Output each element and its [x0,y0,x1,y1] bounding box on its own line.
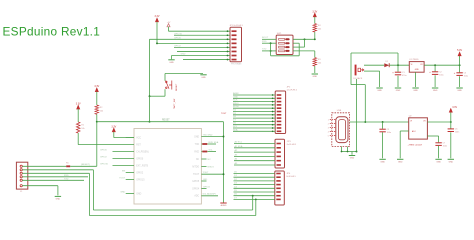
svg-text:ESPduino Rev1.1: ESPduino Rev1.1 [3,25,101,39]
svg-text:GND: GND [396,90,401,92]
svg-text:J1: J1 [20,191,23,193]
svg-text:RXD SDA: RXD SDA [209,141,219,144]
svg-text:GPIO15: GPIO15 [100,164,109,166]
svg-text:DC-JACK: DC-JACK [354,77,363,80]
svg-text:GND: GND [436,161,441,163]
svg-text:AREF: AREF [233,92,239,95]
svg-text:3.3V: 3.3V [155,15,160,18]
svg-text:MTDO: MTDO [192,166,199,168]
svg-text:GND: GND [56,198,61,200]
svg-text:C6: C6 [455,129,458,131]
svg-text:TOUT: TOUT [193,174,200,176]
svg-text:VO: VO [420,64,423,66]
svg-text:MISO: MISO [233,103,239,105]
svg-text:ADC: ADC [194,195,199,198]
svg-text:C1: C1 [402,72,405,74]
svg-text:GPIO2: GPIO2 [174,46,181,48]
svg-text:GPIO2: GPIO2 [100,157,107,159]
svg-text:10k: 10k [81,128,84,130]
svg-text:A3: A3 [235,153,238,156]
svg-text:A4: A4 [235,158,238,161]
svg-text:SCL ADA SPI: SCL ADA SPI [203,193,217,196]
svg-text:6x1F-H8.5: 6x1F-H8.5 [287,144,297,146]
svg-text:AGND: AGND [221,204,227,207]
svg-text:GND: GND [413,90,418,92]
svg-text:3.3V: 3.3V [76,102,81,105]
svg-text:(RESET): (RESET) [81,164,90,166]
svg-text:GND: GND [136,193,141,195]
svg-text:RST: RST [136,144,141,146]
svg-text:GND: GND [457,90,462,92]
svg-text:NC: NC [208,159,212,161]
svg-text:JP4: JP4 [286,173,291,175]
svg-text:GND: GND [377,90,382,92]
svg-text:RESET: RESET [162,120,170,122]
svg-text:RESET: RESET [176,83,178,91]
svg-text:TOUT: TOUT [119,178,126,180]
svg-text:GND: GND [194,136,199,138]
svg-text:CH_PD(EN): CH_PD(EN) [136,151,149,153]
svg-text:A1 SDA: A1 SDA [235,145,243,148]
svg-text:R2: R2 [100,107,103,109]
svg-text:R4: R4 [318,25,321,27]
svg-text:VI: VI [411,64,413,66]
svg-text:EXT_RSTB: EXT_RSTB [136,165,148,167]
svg-text:GND: GND [380,161,385,163]
svg-text:GPIO0: GPIO0 [136,158,144,160]
svg-text:C2: C2 [439,72,442,74]
svg-text:R1: R1 [81,125,84,127]
svg-text:8x1F-H8.5: 8x1F-H8.5 [286,176,296,178]
svg-text:GPIO15: GPIO15 [136,179,145,181]
svg-text:100u: 100u [464,75,468,77]
svg-text:1: 1 [328,119,329,121]
svg-text:GND: GND [201,77,206,79]
svg-text:GND: GND [169,62,174,64]
svg-text:U2: U2 [409,115,413,117]
svg-text:+ REG LD1117: + REG LD1117 [408,145,423,147]
svg-text:VI: VI [410,121,412,123]
svg-text:5: 5 [328,135,329,137]
svg-text:GPIO0: GPIO0 [174,38,181,40]
svg-text:GPIO4: GPIO4 [203,186,210,188]
svg-text:SW1: SW1 [277,33,283,35]
svg-text:D1: D1 [386,61,389,63]
svg-text:GPIO0: GPIO0 [100,150,107,152]
svg-text:GND: GND [233,96,238,98]
svg-text:GND: GND [398,161,403,163]
svg-text:GND: GND [120,192,125,194]
svg-text:NC: NC [196,159,200,161]
svg-text:TOUT: TOUT [221,113,227,115]
svg-text:C5: C5 [387,129,390,131]
svg-text:SCL: SCL [209,149,214,151]
svg-text:R5: R5 [66,163,69,165]
svg-text:GPIO2: GPIO2 [136,172,144,174]
svg-text:GND: GND [449,161,454,163]
svg-text:A2: A2 [235,149,238,152]
svg-text:R3: R3 [318,59,321,61]
svg-text:A0 SCL: A0 SCL [235,141,243,144]
svg-text:100u: 100u [439,74,443,76]
svg-text:RXD: RXD [64,175,69,177]
svg-text:LED: LED [203,179,208,181]
svg-text:GPIO5: GPIO5 [192,181,200,183]
svg-text:5.0V: 5.0V [457,49,462,52]
svg-text:TXD: TXD [195,144,200,146]
svg-text:10k: 10k [100,111,103,113]
svg-text:3.3V: 3.3V [452,106,457,109]
svg-text:MTDO: MTDO [208,166,215,168]
svg-text:TXD: TXD [262,49,267,51]
svg-text:C7: C7 [443,143,446,145]
svg-text:JP2: JP2 [287,87,292,89]
svg-text:JP1 8x1F-H8.5: JP1 8x1F-H8.5 [230,25,244,27]
svg-text:+: + [454,72,456,75]
svg-text:100n: 100n [455,132,459,134]
svg-text:USB: USB [337,110,342,112]
svg-text:100n: 100n [387,132,391,134]
svg-text:GND: GND [350,158,355,160]
svg-text:TXD GND: TXD GND [203,135,213,137]
svg-text:GPIO15: GPIO15 [174,33,183,35]
svg-text:3: 3 [328,127,329,129]
svg-text:4: 4 [328,131,329,133]
svg-text:470u: 470u [402,75,406,77]
svg-text:MOSI: MOSI [233,106,239,108]
svg-text:ADJ: ADJ [412,130,415,133]
svg-text:JP3: JP3 [287,141,292,143]
svg-text:GND: GND [415,69,420,71]
svg-text:GPIO4: GPIO4 [192,188,200,190]
svg-text:2: 2 [328,123,329,125]
svg-text:+: + [429,71,431,74]
svg-text:RXD: RXD [262,41,267,43]
svg-text:12x1F-H8.5: 12x1F-H8.5 [287,89,298,91]
svg-text:+: + [392,71,394,74]
svg-text:PROGRAM: PROGRAM [231,63,242,66]
svg-text:C3: C3 [464,73,467,75]
svg-text:TXD: TXD [64,178,69,180]
svg-text:TOUT: TOUT [203,172,210,174]
svg-text:A5: A5 [235,162,238,165]
svg-text:VCC: VCC [136,137,141,139]
svg-text:EN: EN [122,171,125,173]
svg-text:TACT_SW: TACT_SW [173,98,176,109]
svg-text:3.3V: 3.3V [94,85,99,88]
svg-text:100n: 100n [443,145,447,147]
svg-text:U1 78M05: U1 78M05 [409,59,419,61]
svg-text:10k: 10k [318,63,321,65]
svg-text:BOOT: BOOT [262,37,269,39]
svg-text:SCK: SCK [233,100,238,102]
svg-text:GND: GND [433,90,438,92]
svg-text:10k: 10k [318,29,321,31]
svg-text:GND: GND [313,76,318,78]
svg-text:GND: GND [181,54,186,56]
svg-text:VO: VO [423,121,426,123]
svg-text:SDA: SDA [233,128,238,131]
svg-text:RXD: RXD [194,151,199,153]
